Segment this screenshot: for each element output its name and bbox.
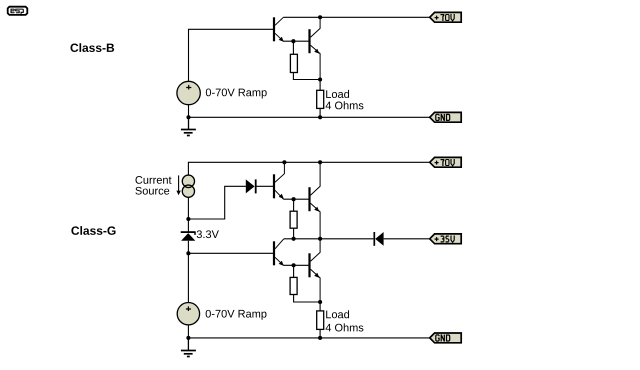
resistor R2	[290, 199, 297, 239]
label Class-B	[70, 43, 114, 52]
node: current source / D1 branch	[186, 217, 190, 221]
wire: GND rail (Class-B)	[189, 116, 430, 118]
node: R3 / Q6 emitter junction	[318, 300, 322, 304]
node: V1 / GND rail junction	[186, 115, 190, 119]
label Load 4 Ohms (Class-G)	[326, 310, 364, 331]
flag GND (Class-B)	[430, 112, 462, 122]
node: Q4 collector on +70V rail	[318, 160, 322, 164]
wire: R1 bottom to Q2 emitter line	[293, 73, 320, 80]
transistor Q5	[274, 239, 284, 266]
wire: Q1 emitter to Q2 base	[283, 40, 309, 42]
node: Q5 emitter / R3 junction	[292, 263, 296, 267]
resistor R3	[290, 265, 297, 294]
wire: current source to zener / branch to D1	[188, 186, 246, 231]
node: Q2 collector on +70V rail	[318, 15, 322, 19]
diode D2	[374, 232, 429, 246]
ESP logo	[8, 7, 28, 16]
label 0-70V Ramp (Class-B)	[206, 89, 267, 99]
wire: V1 top to Q1 base	[189, 29, 274, 81]
node: Load2 on GND rail	[318, 336, 322, 340]
wire: V2 bottom to GND rail	[187, 325, 189, 338]
transistor Q6	[310, 239, 321, 302]
flag GND (Class-G)	[430, 333, 462, 343]
node: Load1 on GND rail	[318, 115, 322, 119]
ground (Class-G)	[181, 338, 196, 357]
node: R2 on commutation rail	[292, 237, 296, 241]
transistor Q2	[310, 17, 321, 79]
label Load 4 Ohms (Class-B)	[326, 90, 364, 109]
label Class-G	[71, 226, 115, 235]
node: Q4 emitter / Q6 collector on commutation rail	[318, 237, 322, 241]
node: Q5 base branch	[186, 251, 190, 255]
node: Q3 emitter / R2 junction	[292, 197, 296, 201]
voltage source V1	[177, 81, 200, 104]
wire: Q5 emitter to Q6 base	[283, 264, 309, 266]
wire: GND rail (Class-G)	[188, 337, 429, 339]
wire: commutation rail (Q4 emitter / Q6 collector)	[284, 238, 374, 240]
resistor Load2 4 Ohms	[317, 302, 324, 338]
voltage source V2	[177, 303, 199, 325]
label 0-70V Ramp (Class-G)	[206, 310, 267, 320]
label Current Source	[135, 176, 171, 195]
flag +70V (Class-G)	[430, 157, 462, 167]
wire: +70V rail (Class-B)	[283, 16, 429, 18]
transistor Q1	[274, 17, 284, 42]
ground (Class-B)	[181, 117, 196, 135]
wire: Q3 emitter to Q4 base	[283, 198, 309, 200]
arrow: current source direction	[176, 175, 180, 195]
resistor R1	[290, 41, 297, 72]
wire: +70V rail (Class-G) with corner to current source	[188, 162, 429, 175]
resistor Load1 4 Ohms	[317, 80, 324, 118]
flag +70V (Class-B)	[430, 12, 462, 22]
diode D1	[246, 179, 274, 193]
wire: V1 bottom to GND rail	[188, 105, 190, 118]
node: Q3 collector on +70V rail	[282, 160, 286, 164]
node: R1 / Q2 emitter junction	[318, 77, 322, 81]
transistor Q4	[310, 162, 321, 239]
transistor Q3	[274, 162, 284, 199]
label 3.3V	[197, 230, 219, 238]
zener diode D3 3.3V	[181, 232, 196, 241]
current source I1	[182, 175, 194, 197]
wire: R3 bottom to Q6 emitter line	[294, 295, 321, 303]
node: V2 / GND rail junction	[186, 336, 190, 340]
flag +35V	[430, 234, 462, 244]
node: Q1 emitter / R1 junction	[291, 39, 295, 43]
wire: zener to V2 top / Q5 base branch	[188, 241, 273, 303]
